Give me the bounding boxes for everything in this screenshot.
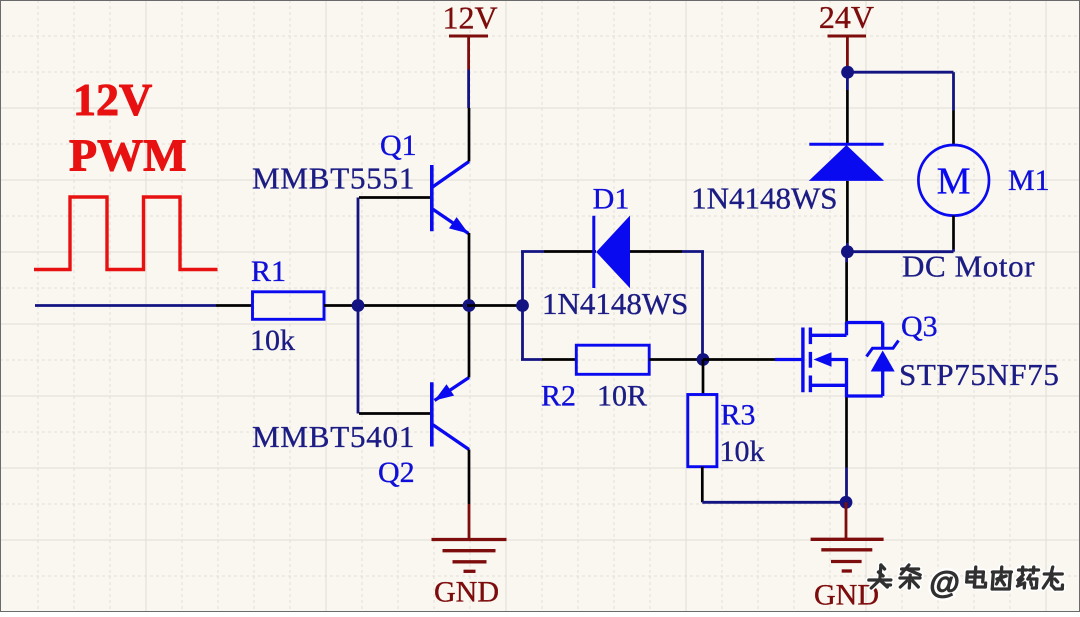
svg-text:12V: 12V: [73, 74, 152, 125]
svg-text:10k: 10k: [250, 324, 295, 357]
svg-text:M: M: [937, 161, 971, 203]
svg-text:M1: M1: [1008, 164, 1050, 197]
svg-text:D1: D1: [593, 183, 630, 216]
svg-text:STP75NF75: STP75NF75: [899, 357, 1059, 392]
svg-text:DC Motor: DC Motor: [902, 249, 1035, 284]
svg-text:R1: R1: [251, 255, 286, 288]
svg-text:R2: R2: [541, 380, 576, 413]
svg-text:Q1: Q1: [380, 129, 417, 162]
svg-text:MMBT5551: MMBT5551: [252, 161, 415, 196]
svg-text:12V: 12V: [442, 0, 497, 36]
svg-text:10R: 10R: [597, 380, 647, 413]
svg-text:Q3: Q3: [901, 310, 938, 343]
svg-text:24V: 24V: [819, 0, 874, 35]
svg-text:1N4148WS: 1N4148WS: [691, 181, 837, 216]
svg-text:PWM: PWM: [69, 130, 187, 181]
svg-text:10k: 10k: [720, 435, 765, 468]
svg-text:GND: GND: [434, 576, 499, 609]
svg-text:Q2: Q2: [378, 456, 415, 489]
svg-text:MMBT5401: MMBT5401: [252, 419, 415, 454]
svg-text:GND: GND: [814, 579, 879, 612]
svg-text:1N4148WS: 1N4148WS: [542, 286, 688, 321]
svg-text:@: @: [928, 565, 961, 600]
svg-text:R3: R3: [721, 399, 756, 432]
